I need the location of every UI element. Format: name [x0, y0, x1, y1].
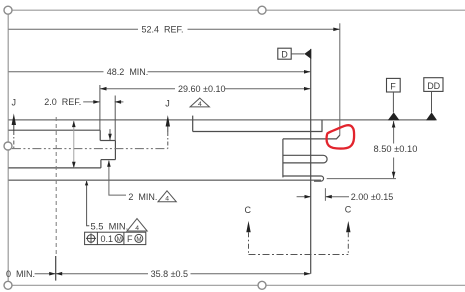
- vertical dim x73.8 with arrows: [73, 121, 75, 168]
- datum F box: [387, 78, 401, 92]
- svg-text:29.60 ±0.10: 29.60 ±0.10: [178, 84, 225, 94]
- datum DD triangle: [426, 112, 437, 120]
- section J arrow right: [166, 115, 170, 126]
- datum DD box: [424, 78, 443, 92]
- svg-text:J: J: [165, 99, 170, 109]
- dim 8.50 vertical: [393, 121, 395, 144]
- dim 29.60 line: [100, 88, 175, 90]
- svg-text:M: M: [136, 236, 141, 243]
- svg-text:35.8 ±0.5: 35.8 ±0.5: [151, 269, 188, 279]
- svg-text:F: F: [127, 234, 133, 244]
- selection border bottom: [8, 284, 465, 286]
- FCF box: [85, 232, 146, 244]
- long extension line x310.7: [310, 49, 312, 274]
- datum D triangle: [304, 49, 311, 59]
- part nose bottom: [101, 159, 116, 161]
- part step face: [99, 130, 101, 140]
- leader 2 MIN down arrow: [109, 129, 111, 140]
- svg-text:0.1: 0.1: [101, 234, 114, 244]
- selection border top: [8, 9, 465, 11]
- svg-text:F: F: [390, 81, 396, 91]
- rail right face: [321, 120, 323, 132]
- part step surface: [100, 140, 115, 142]
- triangle flag 4 (29.60): [190, 98, 209, 107]
- rail bottom edge: [193, 131, 323, 133]
- prong 1: [283, 155, 327, 163]
- datum line top (J/F surface): [9, 119, 436, 121]
- dim 35.8 bottom line: [35, 273, 148, 275]
- hidden dashed line x56: [55, 117, 57, 256]
- svg-text:4: 4: [198, 101, 202, 108]
- svg-text:52.4 REF.: 52.4 REF.: [142, 25, 184, 35]
- section C arrow left: [246, 221, 250, 232]
- extension line x115 (2.0 right): [114, 96, 116, 141]
- svg-text:DD: DD: [427, 81, 440, 91]
- beam bottom edge with chamfer: [283, 135, 340, 139]
- extension line x100 (2.0/29.60 left): [99, 85, 101, 130]
- extension x325.4: [324, 188, 326, 201]
- dim 52.4 REF line: [9, 28, 139, 30]
- handle bottom-center: [258, 281, 266, 289]
- datum F triangle: [388, 112, 400, 120]
- selection border left: [7, 10, 9, 285]
- handle top-left: [4, 6, 12, 14]
- leader 2 MIN up arrow + elbow: [109, 161, 126, 195]
- section J arrow left: [12, 113, 16, 125]
- 8.50 bottom extension line: [327, 178, 396, 180]
- prong 2: [283, 176, 324, 181]
- part left bar top edge: [9, 129, 101, 131]
- svg-text:J: J: [12, 98, 17, 108]
- datum DD leader: [431, 91, 433, 112]
- part nose right face: [114, 141, 116, 160]
- handle left-center: [4, 142, 12, 150]
- svg-text:5.5 MIN.: 5.5 MIN.: [91, 222, 129, 232]
- svg-text:4: 4: [135, 225, 139, 232]
- datum F leader: [392, 92, 394, 112]
- part nose lower face: [100, 160, 102, 168]
- svg-text:D: D: [281, 49, 288, 59]
- handle top-center: [258, 6, 266, 14]
- rail left face: [192, 116, 194, 132]
- datum D leader: [291, 53, 304, 55]
- datum D box: [278, 48, 291, 59]
- svg-text:C: C: [245, 205, 252, 215]
- handle bottom-left: [4, 281, 12, 289]
- svg-text:C: C: [345, 205, 352, 215]
- dim 48.2 MIN line: [9, 71, 104, 73]
- triangle flag 4 (5.5 MIN): [127, 219, 147, 231]
- dim 2.00: [297, 196, 311, 198]
- long extension line x340.5 (52.4 right / part tip): [339, 23, 341, 135]
- triangle flag 4 (2 MIN): [158, 191, 176, 202]
- svg-text:2 MIN.: 2 MIN.: [128, 192, 157, 202]
- part left bar bottom edge: [9, 167, 101, 169]
- leader 5.5 MIN: [87, 181, 90, 226]
- svg-text:2.0 REF.: 2.0 REF.: [44, 97, 81, 107]
- svg-text:0 MIN.: 0 MIN.: [6, 269, 35, 279]
- svg-text:4: 4: [165, 196, 169, 203]
- svg-text:2.00 ±0.15: 2.00 ±0.15: [351, 192, 393, 202]
- red annotation loop: [327, 125, 355, 148]
- svg-text:8.50 ±0.10: 8.50 ±0.10: [374, 144, 418, 154]
- dim 2.0 REF: [83, 101, 100, 103]
- prong block left face: [282, 139, 284, 178]
- section C arrow right: [346, 221, 350, 232]
- bottom tick x55.7: [55, 256, 57, 281]
- svg-text:M: M: [117, 236, 122, 243]
- datum line bottom: [9, 179, 322, 181]
- svg-text:48.2 MIN.: 48.2 MIN.: [107, 67, 149, 77]
- centerline: [12, 148, 168, 150]
